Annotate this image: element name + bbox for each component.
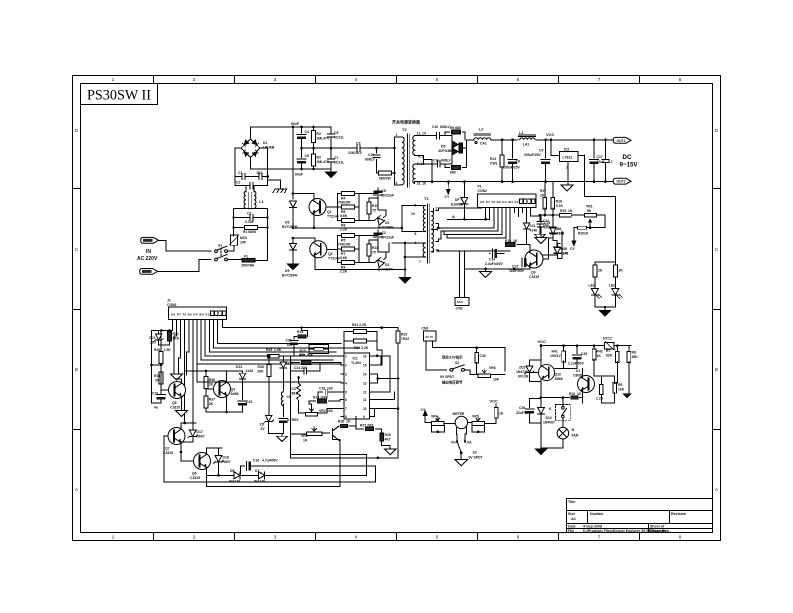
svg-text:2: 2 [193,535,196,540]
svg-text:D3: D3 [385,263,389,267]
potentiometer VR4 [425,422,431,424]
pin numbers [345,354,367,419]
svg-text:CR: CR [287,395,292,399]
svg-text:4148: 4148 [557,232,565,236]
svg-text:6: 6 [415,232,417,236]
inductor L2 [474,138,491,140]
svg-text:0.1: 0.1 [608,160,613,164]
resistor R10 [369,198,378,220]
svg-text:CN3: CN3 [422,327,429,331]
svg-text:IC2: IC2 [564,148,569,152]
wire [292,127,294,199]
capacitor C16 [247,462,252,471]
svg-text:62K: 62K [606,354,613,358]
svg-text:C3: C3 [247,212,251,216]
resistor R13 [506,243,515,247]
wire [426,341,447,370]
diode D7b IN4148 [259,472,265,479]
wire [595,295,616,311]
resistor R45 [600,384,603,394]
svg-text:680: 680 [450,171,456,175]
svg-text:R38: R38 [258,365,264,369]
svg-text:1K: 1K [499,412,504,416]
junction dots [292,192,316,229]
svg-text:A4: A4 [571,517,576,521]
svg-text:7: 7 [345,407,347,411]
capacitor C25b [290,341,298,345]
svg-text:R8: R8 [632,351,636,355]
capacitor C28 [279,418,288,422]
svg-text:VCC: VCC [538,339,547,344]
resistor R46 [613,383,617,394]
diode D10 [554,248,560,254]
svg-text:7K62: 7K62 [401,337,409,341]
transformer T1 core [428,204,430,263]
svg-text:D18: D18 [223,456,229,460]
svg-text:2K: 2K [209,383,214,387]
svg-text:Q10: Q10 [555,373,562,377]
svg-text:C1815: C1815 [529,275,539,279]
switch S1 pole1 [215,246,228,252]
transformer T2 secondary bottom [413,164,415,183]
svg-text:5: 5 [345,391,347,395]
svg-text:14: 14 [363,373,367,377]
svg-text:7: 7 [598,77,601,82]
capacitor C23 [238,401,247,406]
connector OUT2 [613,178,631,184]
relay switch S4 [556,404,571,420]
diode D10b 4148 [554,247,560,253]
svg-text:PS30SW II: PS30SW II [87,88,151,104]
svg-text:C6: C6 [305,154,309,158]
bridge rectifier D1 LRU6B [241,139,260,158]
svg-text:1K: 1K [513,239,518,243]
svg-text:2K: 2K [209,402,214,406]
svg-text:D8: D8 [285,221,289,225]
svg-text:4148: 4148 [561,252,569,256]
svg-text:1N4738A: 1N4738A [516,370,531,374]
svg-text:C8: C8 [382,189,386,193]
junction dot [292,237,295,240]
svg-text:1K: 1K [346,420,351,424]
resistor R14 [302,328,308,334]
svg-text:D4: D4 [557,227,561,231]
resistor R43 [616,346,618,352]
capacitor C22 [160,372,162,393]
svg-text:C22: C22 [152,392,158,396]
svg-text:BV22uF: BV22uF [382,236,395,240]
potentiometer VR2 [299,408,305,413]
svg-text:C1: C1 [238,171,242,175]
ground [288,264,299,270]
svg-text:12: 12 [363,391,367,395]
svg-text:B: B [715,367,718,372]
resistor R18 [552,182,554,199]
svg-text:TT2140: TT2140 [327,215,339,219]
svg-text:C16: C16 [253,459,259,463]
fan motor M [562,418,564,428]
svg-text:R31: R31 [173,332,179,336]
svg-text:T1: T1 [424,196,429,201]
svg-text:7: 7 [598,535,601,540]
svg-text:200uF/25V: 200uF/25V [524,153,542,157]
opto winding [281,392,283,406]
svg-text:Q4: Q4 [231,388,236,392]
svg-text:C2: C2 [292,387,296,391]
svg-text:22uF/50V: 22uF/50V [516,411,532,415]
wire J1 pins [172,319,222,423]
pin stubs left [341,356,344,417]
inductor L3 [520,138,535,140]
junction dots [292,126,378,171]
svg-text:1K: 1K [584,232,589,236]
svg-text:IN4148: IN4148 [229,480,240,484]
resistor VR3 [306,427,321,436]
svg-text:7: 7 [566,166,568,170]
resistor R39 [476,348,478,354]
resistor R30 [613,265,617,277]
svg-text:C17: C17 [597,155,603,159]
svg-text:22K/2KV: 22K/2KV [348,151,362,155]
svg-text:0C21L: 0C21L [334,161,344,165]
svg-text:C9: C9 [539,149,543,153]
svg-text:2K: 2K [619,269,624,273]
svg-text:D: D [715,128,719,133]
svg-text:C1815: C1815 [190,476,200,480]
capacitor C10 808LV [376,148,378,173]
svg-text:C30: C30 [480,354,486,358]
ground [384,449,396,455]
resistor R17 [544,182,546,199]
capacitor C1 [235,176,268,178]
wire mid rail [293,227,402,229]
svg-text:4K7: 4K7 [385,438,391,442]
svg-text:100/1V: 100/1V [550,354,561,358]
svg-text:CW1: CW1 [490,162,498,166]
transistor Q8 [332,426,339,441]
capacitor C31 [539,215,541,221]
svg-text:L1: L1 [259,199,264,204]
transistor Q6 [194,453,211,470]
svg-text:C4: C4 [305,130,309,134]
svg-text:T2: T2 [402,127,407,132]
resistor R6 [338,206,360,208]
svg-text:E1098D: E1098D [451,203,464,207]
svg-text:C10: C10 [432,125,438,129]
capacitor C2b [359,230,378,246]
svg-text:IC1: IC1 [353,357,358,361]
ground [281,433,283,436]
ground [535,238,547,244]
svg-text:D5: D5 [441,145,445,149]
svg-text:CA1: CA1 [480,142,487,146]
transistor Q9 [525,250,543,268]
svg-text:8: 8 [679,535,682,540]
svg-text:60uF: 60uF [291,122,299,126]
wire to LED circuit [585,155,616,262]
svg-text:1: 1 [112,77,115,82]
svg-text:6K8: 6K8 [173,337,179,341]
svg-text:4148: 4148 [530,229,538,233]
transformer T2 primary [395,137,403,185]
row tick marks left [73,189,81,430]
svg-text:F1: F1 [244,255,248,259]
potentiometer VR6 [465,370,479,375]
svg-text:103: 103 [327,387,333,391]
svg-text:15: 15 [363,363,367,367]
transistor Q2 TT2140 [310,241,327,258]
wire T1 primary top leads [402,206,422,232]
svg-text:R607: R607 [197,435,205,439]
diode D2 BVY26PH [359,219,374,221]
svg-text:M: M [572,428,575,432]
resistor R7f 680 [445,148,467,168]
svg-text:11, 14: 11, 14 [417,132,426,136]
svg-text:D13: D13 [236,365,242,369]
diode D3 BVY26PH [359,262,374,264]
capacitor C4 60uF [301,127,303,148]
wire [595,277,616,288]
wire [152,364,162,372]
thermistor NTC1 MZ3 [230,234,239,245]
svg-text:9: 9 [363,415,365,419]
svg-text:L7812: L7812 [563,156,573,160]
connector CZ2 [140,269,158,275]
junction dots [266,175,269,178]
svg-text:LRU6B: LRU6B [263,146,275,150]
svg-text:2: 2 [345,363,347,367]
svg-text:VCC: VCC [490,399,499,404]
resistor R24 56K [302,361,311,365]
svg-text:C20: C20 [286,339,292,343]
resistor R37 2K [205,389,207,397]
wire long bottom buses [164,481,375,483]
resistor R42 1K [593,346,595,350]
wire [246,186,254,192]
svg-text:2K: 2K [598,269,603,273]
svg-text:Q9: Q9 [531,271,536,275]
svg-text:681: 681 [292,392,298,396]
svg-text:R37: R37 [209,398,215,402]
svg-text:OUT2: OUT2 [617,180,626,184]
svg-text:METER: METER [453,412,465,416]
svg-text:C11: C11 [433,159,439,163]
resistor R2 2ML47V [313,127,315,148]
svg-text:R7: R7 [606,349,610,353]
wire [228,245,234,251]
svg-text:220: 220 [301,366,307,370]
svg-text:DF: DF [455,198,460,202]
thermistor RT zigzag [297,383,301,400]
resistor R3 2ML47V [313,148,315,169]
capacitor C6 60uF [301,148,303,169]
svg-text:R11: R11 [372,246,378,250]
current loop CA1 [475,141,477,143]
resistor R47 1K [541,397,570,399]
svg-text:4: 4 [355,535,358,540]
wire [181,452,194,461]
svg-text:Q5: Q5 [172,401,177,405]
wire [158,240,211,251]
svg-text:6K: 6K [435,418,439,422]
resistor R12 [501,140,503,182]
transformer T1 secondary [431,212,433,252]
svg-text:2: 2 [193,77,196,82]
zener D17 R607 [192,429,194,431]
diode D11 [526,223,528,224]
resistor R44 36K [629,346,631,352]
resistor R36 2K [205,371,207,377]
svg-text:R2: R2 [317,132,321,136]
transformer T1 primary top [423,206,425,232]
svg-text:Size: Size [568,512,575,516]
diode D4b 4148 [550,227,556,233]
transformer T1 primary bottom [423,243,425,257]
diode D12b [280,362,286,368]
resistor R15 100K [317,399,326,403]
svg-text:6: 6 [517,535,520,540]
svg-text:D17: D17 [197,430,203,434]
svg-text:2.2uF/50V: 2.2uF/50V [568,362,585,366]
svg-text:BV22uF: BV22uF [382,194,395,198]
svg-text:R36: R36 [209,378,215,382]
svg-text:3: 3 [274,535,277,540]
wire [293,194,314,200]
svg-text:R13: R13 [505,239,511,243]
svg-text:2.2K: 2.2K [340,228,348,232]
svg-text:D10: D10 [561,247,567,251]
svg-text:现实/10V指示: 现实/10V指示 [442,355,463,360]
chassis ground [268,180,281,188]
svg-text:4148: 4148 [246,369,254,373]
ground [400,278,411,284]
svg-text:5: 5 [436,77,439,82]
svg-text:R18: R18 [556,200,562,204]
svg-text:C21: C21 [294,366,300,370]
svg-text:10K: 10K [618,388,625,392]
svg-text:ZD1: ZD1 [149,336,156,340]
svg-text:D1: D1 [263,141,267,145]
svg-text:FAN: FAN [572,434,579,438]
svg-text:C5: C5 [334,131,338,135]
svg-text:10K: 10K [493,378,500,382]
wire VR4 loop [431,424,455,432]
wire pin4 run [197,381,341,383]
svg-text:A: A [75,487,78,492]
transistor Q10 A966 [538,364,554,380]
capacitor C2 [259,173,262,179]
svg-text:4CPO3B: 4CPO3B [438,149,452,153]
svg-text:R35: R35 [266,348,272,352]
svg-text:A966: A966 [555,377,563,381]
ground [536,449,547,455]
resistor R28 [380,433,384,441]
svg-text:10P: 10P [240,241,247,245]
resistor R29 [593,265,597,277]
svg-text:LED: LED [589,284,596,288]
svg-text:70K/2W: 70K/2W [338,201,351,205]
svg-text:CY: CY [570,247,575,251]
capacitor C9 22K/2KV [357,145,360,151]
junction dot [437,227,440,230]
wire output [464,140,467,148]
svg-text:4-Sep-2008: 4-Sep-2008 [583,524,602,528]
svg-text:Q2: Q2 [328,252,333,256]
wire [293,238,315,242]
resistor R11 [369,240,378,263]
svg-text:K: K [549,407,552,411]
resistor R20 [578,226,587,229]
svg-text:C10: C10 [368,153,374,157]
svg-text:S3: S3 [473,451,477,455]
svg-text:LA1: LA1 [523,142,530,146]
wire [315,270,405,278]
svg-text:C1815: C1815 [170,406,180,410]
svg-text:CY: CY [445,195,450,199]
svg-text:1: 1 [112,535,115,540]
svg-text:1K: 1K [540,194,545,198]
diode D4 [550,228,556,234]
svg-text:9V 7V: 9V 7V [426,335,434,339]
capacitor C19 [605,140,607,182]
svg-text:1K: 1K [303,439,308,443]
svg-text:C9: C9 [356,142,360,146]
svg-text:R28: R28 [385,433,391,437]
svg-text:VR1: VR1 [586,205,593,209]
svg-text:R17: R17 [540,189,546,193]
svg-text:9V SPDT: 9V SPDT [469,456,484,460]
svg-text:16uF/50V: 16uF/50V [509,269,525,273]
svg-text:BVY26FH: BVY26FH [282,225,298,229]
svg-text:103: 103 [287,343,293,347]
svg-text:NTC2: NTC2 [603,337,612,341]
svg-text:1.5K: 1.5K [164,348,172,352]
svg-text:75: 75 [372,251,376,255]
wire bottom DC rail [251,168,332,170]
choke L1 [246,207,254,209]
svg-text:2: 2 [436,207,438,211]
svg-text:OUT1: OUT1 [617,139,626,143]
svg-text:11: 11 [363,398,367,402]
outer border frame [73,76,721,541]
svg-text:9~15V: 9~15V [620,162,639,169]
svg-text:R10: R10 [372,204,378,208]
transformer T2 secondary top [413,136,415,155]
svg-text:D2: D2 [385,221,389,225]
resistor R19 1K [560,213,572,217]
svg-text:0.1uF: 0.1uF [245,220,254,224]
svg-text:2.2K: 2.2K [340,270,348,274]
svg-text:BVY26PH: BVY26PH [378,226,394,230]
zener ZD2 1N4738A [530,346,542,366]
switch S3 [458,443,462,453]
svg-text:Date: Date [568,524,576,528]
wire [185,370,227,372]
svg-text:4u: 4u [154,406,158,410]
wire [540,214,559,216]
resistor R26 [340,424,347,427]
resistor R4 [338,194,360,221]
svg-text:S2: S2 [455,361,459,365]
resistor R35 1.5K [264,355,267,357]
capacitor C8 [359,188,378,204]
svg-text:5.1K: 5.1K [556,204,564,208]
wire bottom runs [332,440,340,487]
svg-text:A8 P7 T6 B5 R4 W3 E2 Q1: A8 P7 T6 B5 R4 W3 E2 Q1 [171,313,216,317]
arrow CY2 [447,182,449,184]
svg-text:5.6K: 5.6K [340,256,348,260]
wire VCC output rail [491,139,614,141]
